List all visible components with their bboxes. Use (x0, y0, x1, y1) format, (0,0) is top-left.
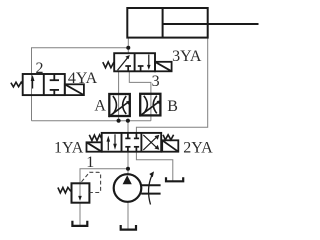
node dot pump-P (126, 167, 130, 171)
main valve body (102, 133, 162, 152)
relief valve down arrow head (78, 196, 82, 201)
main valve center-square blocked ports (125, 133, 139, 152)
tank at valve T-port (166, 177, 183, 181)
valve 4YA up arrow (32, 79, 34, 89)
relief valve body (72, 183, 90, 202)
main valve left-square down arrow (114, 134, 116, 144)
svg-text:B: B (167, 98, 178, 115)
valve 4YA solenoid (65, 84, 84, 95)
valve 3YA right-square down arrow (148, 55, 150, 68)
wire 3YA to throttle B (129, 71, 151, 120)
main valve left solenoid 1YA (87, 142, 102, 151)
wire valve A-port (127, 121, 129, 133)
svg-text:1: 1 (86, 154, 94, 171)
valve 4YA body (23, 74, 65, 95)
wire valve P-port to pump (127, 152, 129, 175)
wire valve B-port to cylinder right port (136, 37, 207, 133)
cylinder body (127, 8, 258, 38)
svg-text:3YA: 3YA (172, 48, 202, 65)
wire cylinder left port to node (127, 37, 129, 53)
main valve right solenoid 2YA (162, 140, 178, 151)
wire relief branch (80, 169, 128, 184)
tank under relief valve (72, 221, 87, 226)
valve 3YA left-square arrow (118, 57, 129, 70)
tank under pump (121, 225, 136, 230)
main valve left-square up arrow (107, 141, 109, 151)
svg-text:1YA: 1YA (54, 140, 84, 157)
wire 3YA to throttle A (118, 71, 120, 120)
relief valve spring (58, 187, 71, 193)
main valve right-square crossed arrows (143, 135, 156, 150)
pump circle (114, 174, 142, 202)
wire valve T-port to tank (136, 152, 172, 181)
valve 3YA solenoid (155, 62, 172, 72)
cylinder piston (162, 8, 164, 38)
wire pump to tank (127, 202, 129, 229)
valve 3YA spring (103, 62, 114, 68)
wire node to 4YA top (32, 48, 129, 121)
node dot bus-A (117, 119, 121, 123)
valve 3YA right-square blocked port (138, 66, 144, 71)
relief valve pilot dashed line (82, 172, 101, 192)
node dot at cylinder port (126, 46, 130, 50)
wire bus (32, 120, 151, 122)
wire relief through-line (79, 183, 81, 199)
main valve right spring (163, 135, 174, 140)
pump variable arrow arc (149, 176, 152, 205)
valve 3YA left-square blocked port (125, 66, 131, 71)
svg-text:4YA: 4YA (68, 70, 98, 87)
pump right lines (141, 185, 160, 193)
valve 4YA spring (11, 82, 23, 87)
main valve left spring (89, 135, 102, 141)
valve 3YA body (114, 53, 155, 71)
svg-text:2YA: 2YA (183, 140, 213, 157)
svg-text:A: A (94, 98, 106, 115)
throttle valve A (109, 94, 130, 116)
cylinder rod (163, 23, 259, 25)
valve 4YA right-square blocked ports (50, 74, 59, 95)
node dot bus-valve (126, 119, 130, 123)
svg-text:2: 2 (36, 60, 44, 77)
pump triangle (123, 175, 132, 184)
wire relief to tank (79, 203, 81, 226)
throttle valve B (140, 94, 160, 116)
svg-text:3: 3 (152, 73, 160, 90)
